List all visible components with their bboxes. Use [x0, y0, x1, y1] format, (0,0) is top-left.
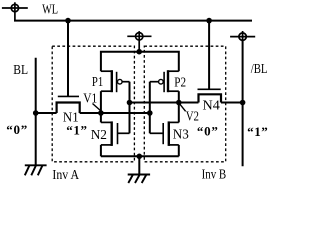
wire P2 drain to V2 — [178, 91, 180, 102]
svg-text:N4: N4 — [203, 99, 220, 114]
wire N4 to /BL — [221, 102, 243, 104]
svg-text:“0”: “0” — [197, 123, 218, 138]
svg-text:N3: N3 — [173, 128, 189, 143]
wire N2 drain to V1 — [100, 113, 102, 122]
label V1 with leader — [93, 104, 101, 111]
svg-text:P2: P2 — [174, 75, 186, 90]
transistor P1 — [101, 70, 130, 92]
node VDD rail junction — [136, 49, 142, 55]
svg-text:Inv B: Inv B — [202, 167, 227, 182]
svg-text:WL: WL — [42, 3, 58, 18]
node ground rail junction — [137, 154, 143, 160]
node V1-wire / InvB-gate junction — [147, 110, 153, 116]
svg-text:/BL: /BL — [251, 62, 268, 77]
wire WL — [14, 20, 252, 22]
ground BL — [25, 165, 47, 175]
wire ground stem — [138, 156, 140, 174]
svg-text:“1”: “1” — [247, 124, 268, 139]
node V2 — [176, 100, 182, 106]
node V1 — [98, 110, 104, 116]
node /BL/N4 junction — [240, 100, 246, 106]
svg-text:BL: BL — [13, 63, 28, 78]
label V2 with leader — [180, 104, 186, 111]
wire gate coupling Inv A (P1/N2 gates to V2) — [129, 82, 131, 134]
wire N2 source to ground rail — [100, 145, 102, 156]
source symbol WL terminal — [2, 2, 28, 20]
node BL/N1 junction — [33, 110, 39, 116]
ground symbol center — [128, 175, 150, 184]
inverter box Inv B (dashed) — [144, 46, 225, 162]
svg-text:N2: N2 — [91, 128, 107, 143]
svg-text:Inv A: Inv A — [52, 168, 79, 183]
wire BL to N1 — [36, 112, 57, 114]
transistor N1 (access) — [57, 21, 80, 113]
wire /BL bit line — [242, 41, 244, 166]
wire N1 to V1 — [80, 112, 101, 114]
svg-text:V1: V1 — [83, 92, 97, 107]
svg-text:“0”: “0” — [6, 122, 27, 137]
node WL/N4-gate junction — [206, 18, 212, 24]
node V2-wire / InvA-gate junction — [127, 100, 133, 106]
node WL/N1-gate junction — [65, 18, 71, 24]
inverter box Inv A (dashed) — [52, 46, 134, 162]
wire gate coupling Inv B (P2/N3 gates to V1) — [149, 82, 151, 134]
wire N3 drain to V2 — [178, 103, 180, 123]
svg-text:“1”: “1” — [66, 123, 87, 138]
wire VDD rail — [101, 52, 179, 71]
source symbol VDD — [127, 31, 151, 52]
wire BL bit line — [35, 58, 37, 166]
wire ground rail — [101, 155, 179, 157]
wire V2 to N4 — [179, 102, 199, 104]
source symbol /BL terminal — [230, 31, 255, 42]
svg-text:P1: P1 — [92, 75, 103, 90]
transistor N4 (access) — [198, 21, 222, 103]
transistor N3 — [150, 121, 179, 145]
transistor N2 — [101, 121, 130, 145]
transistor P2 — [150, 70, 179, 92]
svg-text:V2: V2 — [186, 109, 199, 124]
wire N3 source to ground rail — [178, 145, 180, 156]
wire P1 drain to V1 — [100, 91, 102, 113]
wire V1 cross-coupling — [101, 112, 150, 114]
wire V2 cross-coupling — [130, 102, 179, 104]
